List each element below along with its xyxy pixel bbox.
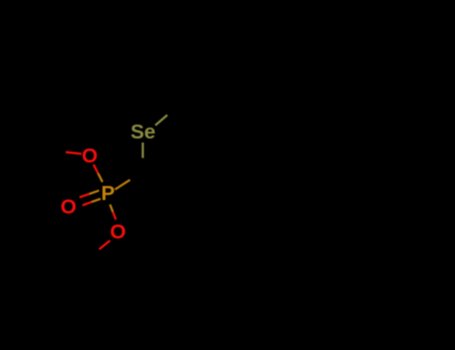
wire P=O double bond line 2 : P half gold xyxy=(92,199,101,202)
wire P=O double bond line 1 : O half red xyxy=(80,194,90,197)
svg-text:O: O xyxy=(61,195,77,218)
wire Se-CH3 bond (selenium half, olive; methyl half invisible black) xyxy=(155,115,167,125)
wire Se-C bond (selenium half, olive) xyxy=(142,143,144,159)
wire P-O ester bond upper : O half red xyxy=(94,165,99,174)
svg-text:Se: Se xyxy=(130,121,155,144)
wire P-O ester bond lower : O half red xyxy=(113,212,116,220)
wire P=O double bond line 1 : P half gold xyxy=(89,191,99,194)
wire P-O ester bond upper : P half gold xyxy=(98,173,103,182)
svg-text:O: O xyxy=(110,221,126,244)
wire O-CH3 bond upper methyl (oxygen half, red) xyxy=(66,152,82,154)
svg-text:P: P xyxy=(101,182,115,205)
svg-text:O: O xyxy=(82,144,98,167)
wire O-CH3 bond lower methyl (oxygen half, red) xyxy=(99,241,110,250)
wire C-P bond (phosphorus half, gold) xyxy=(115,180,130,190)
wire P-O ester bond lower : P half gold xyxy=(110,205,113,213)
wire P=O double bond line 2 : O half red xyxy=(83,202,92,205)
